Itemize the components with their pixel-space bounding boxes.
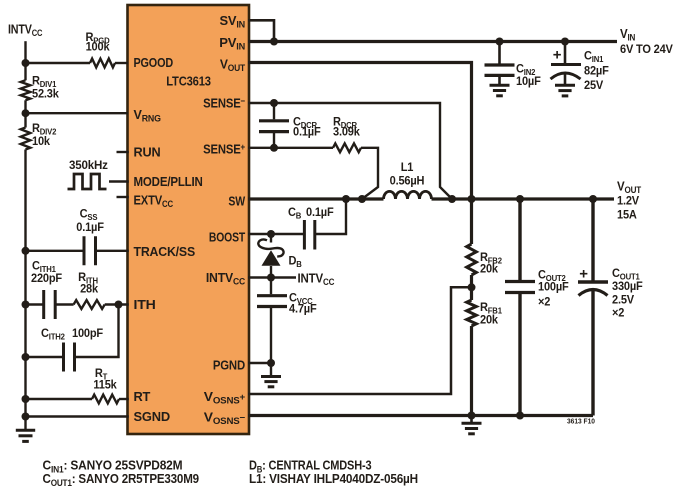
svg-text:COUT1: SANYO 2R5TPE330M9: COUT1: SANYO 2R5TPE330M9 (43, 472, 200, 488)
note DB type (249, 459, 372, 474)
node INTVCC-PGOOD junction (22, 59, 30, 67)
label COUT1 x2 (612, 307, 624, 319)
ground left rail (16, 430, 35, 441)
node CIN2 junction (496, 38, 504, 46)
node SENSE- CDCR junction (270, 99, 278, 107)
net label INTVCC right (298, 271, 335, 287)
wire SGND (26, 415, 129, 417)
svg-text:RUN: RUN (134, 144, 161, 159)
net label VIN (620, 27, 635, 43)
label COUT1 (612, 268, 640, 282)
label CIN2 (516, 63, 536, 77)
svg-text:L1: L1 (401, 162, 414, 174)
note CIN1 type (43, 458, 183, 474)
pin label SVIN (219, 13, 245, 30)
wire RT segment a (26, 398, 93, 400)
svg-text:20k: 20k (480, 314, 499, 326)
wire INTVCC stub (248, 276, 296, 278)
node BOOST DB junction (267, 230, 275, 238)
label CITH2 (41, 328, 65, 342)
label COUT2 value 100uF (538, 281, 569, 293)
node CB-SW junction (342, 195, 350, 203)
node ITH left junction (22, 301, 30, 309)
capacitor CB (304, 220, 314, 250)
pin label BOOST (209, 230, 246, 244)
svg-text:25V: 25V (584, 80, 604, 92)
node SENSE--SW junction (448, 195, 456, 203)
label RDIV1 value 52.3k (32, 88, 59, 100)
pin label PGOOD (134, 55, 174, 70)
note COUT1 type (43, 472, 200, 488)
svg-text:TRACK/SS: TRACK/SS (134, 245, 195, 259)
svg-text:20k: 20k (480, 263, 499, 275)
node SGND junction (22, 413, 30, 421)
capacitor CDCR (259, 103, 289, 148)
wire SENSE- run (248, 103, 452, 199)
svg-text:CSS: CSS (80, 208, 98, 222)
pin label ITH (134, 297, 156, 311)
note L1 type (249, 472, 418, 486)
net label INTVCC top-left (8, 23, 43, 39)
capacitor CSS (84, 236, 96, 265)
node PGND junction (267, 359, 275, 367)
wire VOSNS+ (248, 287, 472, 394)
label RFB2 value 20k (480, 263, 499, 275)
label CITH1 (32, 260, 56, 274)
capacitor CITH1 (44, 290, 56, 319)
node ITH right junction (115, 301, 123, 309)
label VOUT value 15A (617, 209, 638, 221)
svg-text:82µF: 82µF (584, 65, 609, 77)
ground CIN2 (490, 85, 510, 96)
net label VOUT right (617, 179, 642, 195)
wire MODE/PLLIN stub (109, 180, 129, 182)
wire BOOST segment a (248, 233, 304, 235)
node SENSE+ CDCR junction (270, 144, 278, 152)
svg-text:0.1µF: 0.1µF (76, 222, 104, 234)
svg-text:SENSE−: SENSE− (203, 95, 245, 110)
node COUT2 bottom junction (516, 412, 524, 420)
svg-text:L1: VISHAY IHLP4040DZ-056µH: L1: VISHAY IHLP4040DZ-056µH (249, 472, 418, 486)
label CB value (288, 207, 334, 221)
wire RT segment b (119, 398, 129, 400)
label RFB1 (480, 302, 502, 316)
svg-text:RT: RT (134, 389, 151, 404)
wire CITH2 segment b (75, 305, 119, 358)
svg-text:×2: ×2 (538, 296, 550, 308)
svg-text:100pF: 100pF (72, 328, 103, 340)
svg-text:3613 F10: 3613 F10 (567, 418, 595, 425)
svg-text:15A: 15A (617, 209, 638, 221)
svg-text:CITH2: CITH2 (41, 328, 65, 342)
label RITH value 28k (80, 283, 99, 295)
pin label SGND (134, 409, 170, 424)
wire SW rail left (248, 197, 384, 200)
svg-text:6V TO 24V: 6V TO 24V (620, 44, 673, 56)
resistor RITH (74, 300, 105, 309)
label VIN range 6V TO 24V (620, 44, 673, 56)
IC U1 label LTC3613 (166, 74, 211, 89)
wire ITH segment c (105, 303, 129, 305)
wire left rail lower (24, 150, 26, 430)
ground CIN1 (555, 85, 575, 96)
label CIN1 plus (553, 47, 562, 64)
wire VOSNS- bottom rail (248, 414, 593, 417)
label CIN1 value 82uF (584, 65, 609, 77)
wire left rail mid (24, 100, 26, 127)
label COUT2 (538, 269, 566, 283)
pin label RUN (134, 144, 161, 159)
pin label SENSE+ (203, 141, 245, 156)
node COUT1 top junction (589, 195, 597, 203)
wire SVIN jog (248, 20, 274, 41)
label CSS value 0.1uF (76, 222, 104, 234)
label CSS (80, 208, 98, 222)
capacitor COUT1 polarized (578, 199, 608, 416)
wire VRNG (26, 112, 129, 114)
wire ITH segment b (55, 303, 73, 305)
pin label RT (134, 389, 151, 404)
node VOUT column SW junction (468, 195, 476, 203)
svg-text:2.5V: 2.5V (612, 294, 634, 306)
capacitor CIN1 polarized (551, 42, 582, 85)
capacitor CVCC (257, 278, 287, 364)
wire SW rail right (432, 197, 615, 200)
capacitor CIN2 (485, 42, 515, 85)
svg-text:0.1µF: 0.1µF (293, 126, 321, 138)
wire RFB column mid (470, 275, 473, 300)
svg-text:ITH: ITH (134, 297, 156, 311)
svg-text:MODE/PLLIN: MODE/PLLIN (134, 174, 203, 189)
wire PGOOD segment b (115, 62, 128, 64)
label RDCR (333, 116, 357, 130)
svg-text:10k: 10k (32, 136, 51, 148)
label CDCR (293, 116, 317, 130)
node CIN1 junction (561, 38, 569, 46)
label RT value 115k (93, 379, 117, 391)
label RFB2 (480, 252, 502, 266)
svg-text:4.7µF: 4.7µF (289, 303, 317, 315)
pin label VRNG (134, 107, 161, 124)
wire RUN stub (117, 151, 129, 153)
wire VOUT pin to column (248, 63, 472, 245)
wire CB to SW (315, 199, 346, 234)
node RDCR-SW junction (358, 195, 366, 203)
svg-text:28k: 28k (80, 283, 99, 295)
svg-text:CB: CB (288, 207, 302, 221)
label RPGD value 100k (86, 41, 111, 53)
pin label EXTVCC (134, 193, 174, 210)
svg-text:0.1µF: 0.1µF (306, 207, 334, 219)
svg-text:PGOOD: PGOOD (134, 55, 174, 70)
node SVIN-PVIN junction (270, 38, 278, 46)
label COUT2 x2 (538, 296, 550, 308)
pin label VOSNS- (204, 410, 246, 426)
wire left rail upper (24, 41, 26, 80)
svg-text:SW: SW (228, 193, 245, 208)
svg-text:INTVCC: INTVCC (8, 23, 43, 39)
resistor RFB2 (467, 244, 477, 275)
label COUT1 value 330uF (612, 281, 643, 293)
wire EXTVCC stub (117, 196, 129, 198)
pin label SW (228, 193, 245, 208)
label CIN1 value 25V (584, 80, 604, 92)
label figure number 3613 F10 (567, 418, 595, 425)
resistor RFB1 (467, 300, 477, 326)
label CIN2 value 10uF (516, 76, 541, 88)
svg-text:52.3k: 52.3k (32, 88, 59, 100)
pin label VOUT pin (220, 57, 246, 73)
wire PVIN VIN rail (248, 40, 617, 43)
pin label TRACK/SS (134, 245, 195, 259)
pin label PGND (213, 358, 245, 373)
svg-text:100µF: 100µF (538, 281, 569, 293)
ground PGND (261, 363, 281, 387)
svg-text:SENSE+: SENSE+ (203, 141, 245, 156)
label RDCR value 3.09k (333, 126, 360, 138)
label CVCC (289, 292, 313, 306)
label RDIV2 (32, 123, 57, 137)
pin label INTVCC pin (206, 271, 246, 287)
node COUT2 top junction (516, 195, 524, 203)
resistor RDIV2 (21, 128, 31, 150)
label CITH2 value 100pF (72, 328, 103, 340)
capacitor CITH2 (64, 343, 75, 372)
svg-text:BOOST: BOOST (209, 230, 246, 244)
svg-text:INTVCC: INTVCC (298, 271, 335, 287)
svg-text:PGND: PGND (213, 358, 245, 373)
pin label VOSNS+ (204, 389, 246, 405)
label CITH1 value 220pF (31, 273, 62, 285)
label RT resistor (95, 368, 108, 382)
wire PGND (248, 362, 271, 364)
capacitor COUT2 (505, 199, 535, 416)
svg-text:CIN1: CIN1 (584, 50, 604, 64)
node RT junction (22, 395, 30, 403)
label RDIV1 (32, 75, 57, 89)
clock symbol MODE/PLLIN (68, 174, 107, 189)
pin label SENSE- (203, 95, 245, 110)
wire TRACK/SS segment a (26, 250, 85, 252)
resistor RPGD (90, 59, 115, 68)
svg-text:330µF: 330µF (612, 281, 643, 293)
inductor L1 (384, 191, 432, 199)
node feedback junction (468, 283, 476, 291)
pin label PVIN (219, 35, 245, 52)
svg-text:350kHz: 350kHz (69, 159, 108, 172)
node VRNG junction (22, 109, 30, 117)
svg-text:1.2V: 1.2V (617, 195, 639, 207)
pin label MODE/PLLIN (134, 174, 203, 189)
svg-text:VIN: VIN (620, 27, 635, 43)
label RDIV2 value 10k (32, 136, 51, 148)
svg-text:115k: 115k (93, 379, 117, 391)
svg-text:10µF: 10µF (516, 76, 541, 88)
node TRACK/SS junction (22, 247, 30, 255)
label L1 (401, 162, 414, 174)
svg-text:LTC3613: LTC3613 (166, 74, 211, 89)
label DB (289, 255, 303, 269)
wire TRACK/SS segment b (96, 250, 129, 252)
label COUT1 value 2.5V (612, 294, 634, 306)
svg-text:DB: DB (289, 255, 303, 269)
node bottom ground junction (468, 412, 476, 420)
svg-text:+: + (579, 266, 588, 283)
wire CITH2 segment a (26, 356, 64, 358)
resistor RT (92, 395, 119, 404)
ground output (462, 416, 482, 434)
label RITH (78, 272, 98, 286)
resistor RDCR (333, 143, 361, 152)
label RPGD (86, 32, 110, 46)
wire RDCR to SW (361, 148, 378, 199)
label CVCC value 4.7uF (289, 303, 317, 315)
node CITH2 left junction (22, 353, 30, 361)
svg-text:3.09k: 3.09k (333, 126, 360, 138)
label RFB1 value 20k (480, 314, 499, 326)
wire RFB column bottom (470, 326, 473, 416)
wire PGOOD segment a (26, 62, 91, 64)
svg-text:SGND: SGND (134, 409, 170, 424)
node INTVCC junction (267, 274, 275, 282)
diode DB schottky (258, 234, 283, 278)
label 350kHz (69, 159, 108, 172)
label CIN1 (584, 50, 604, 64)
svg-text:220pF: 220pF (31, 273, 62, 285)
wire SENSE+ segment a (248, 147, 333, 149)
svg-text:100k: 100k (86, 41, 111, 53)
label CDCR value 0.1uF (293, 126, 321, 138)
resistor RDIV1 (21, 80, 31, 100)
svg-text:+: + (553, 47, 562, 64)
wire ITH segment a (26, 303, 44, 305)
label COUT1 plus (579, 266, 588, 283)
label VOUT value 1.2V (617, 195, 639, 207)
label L1 value 0.56uH (390, 175, 425, 187)
svg-text:VOUT: VOUT (617, 179, 642, 195)
IC U1 LTC3613 body (128, 5, 250, 434)
svg-text:0.56µH: 0.56µH (390, 175, 425, 187)
svg-text:×2: ×2 (612, 307, 624, 319)
